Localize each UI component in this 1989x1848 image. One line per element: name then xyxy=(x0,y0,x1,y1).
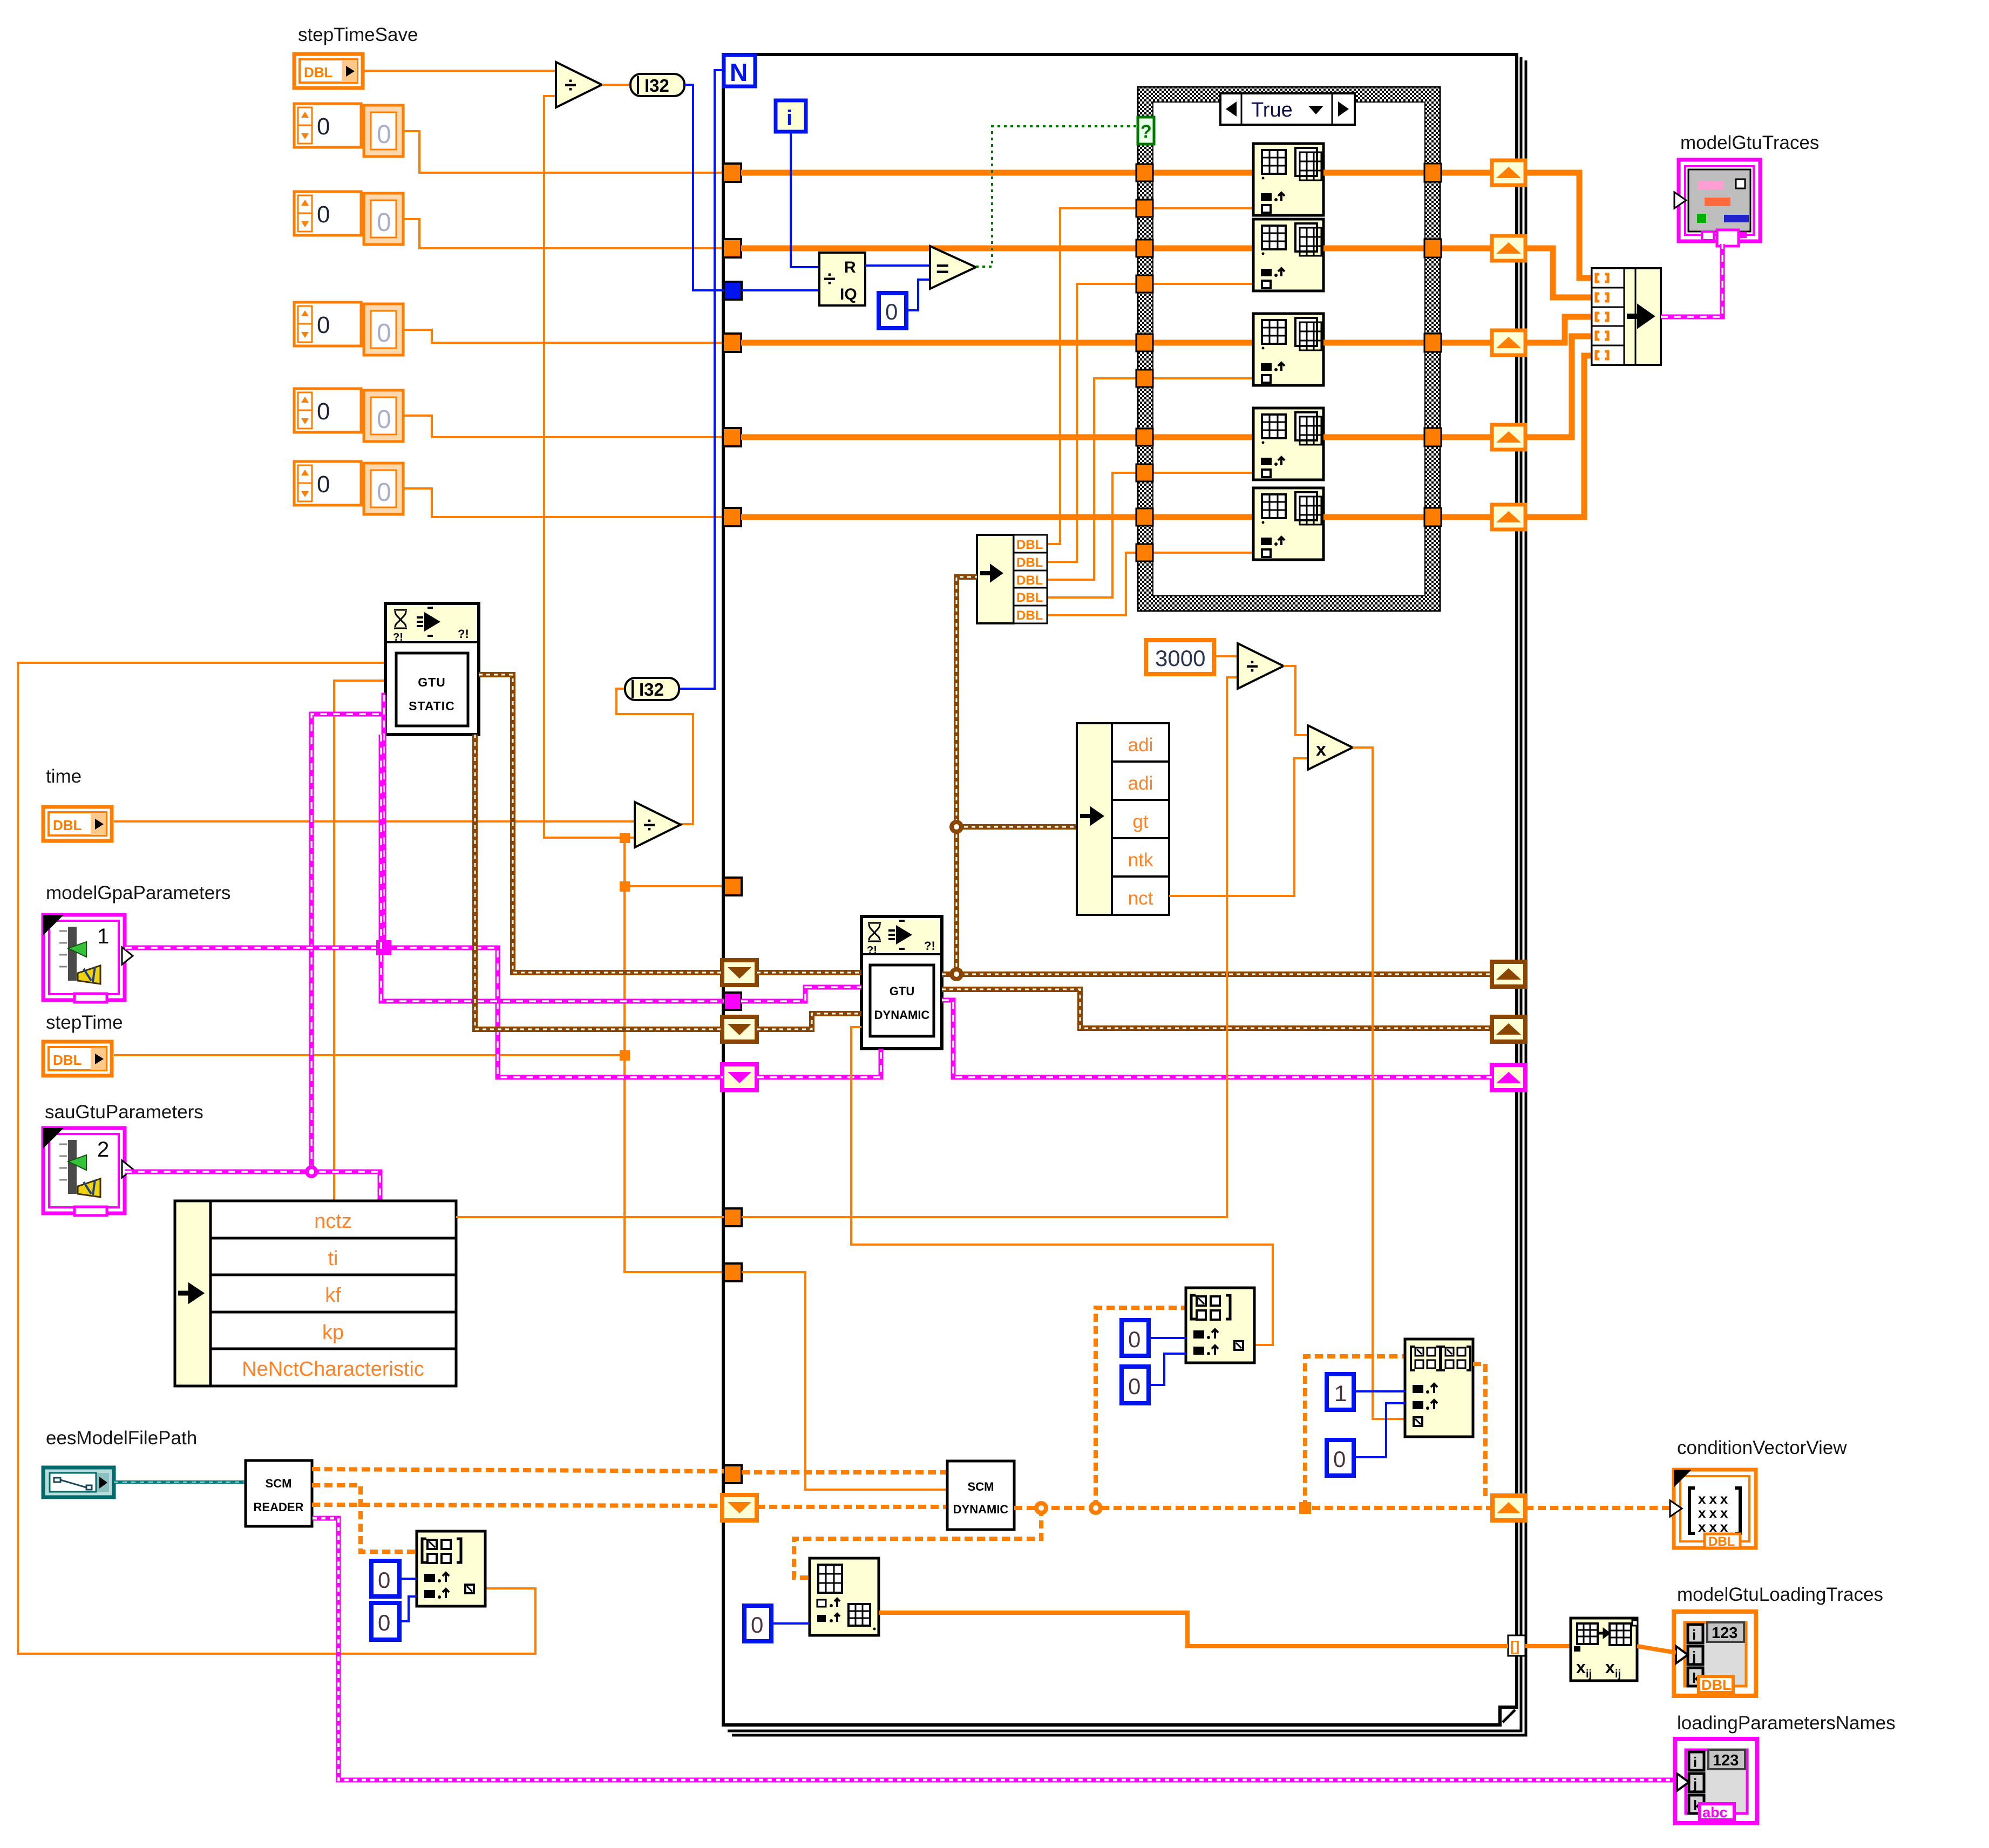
numeric control 2 (0) xyxy=(294,192,403,244)
wire GTU STATIC input 2 riser xyxy=(334,681,385,1201)
wire stepTime control to trunk xyxy=(114,1054,624,1056)
svg-text:i: i xyxy=(786,106,792,130)
constant 0 (blue) for equals xyxy=(879,293,906,328)
svg-text:÷: ÷ xyxy=(824,267,836,291)
svg-text:modelGpaParameters: modelGpaParameters xyxy=(46,882,230,903)
case tunnel right 2 xyxy=(1424,239,1441,257)
wire numeric control 3 to loop tunnel xyxy=(403,330,724,343)
loop tunnel input 3 xyxy=(723,334,741,352)
svg-text:0: 0 xyxy=(1128,1374,1141,1399)
wire equals to case selector (boolean) xyxy=(976,126,1138,267)
wire 2D branch down to matrix node xyxy=(794,1508,1041,1578)
wire nctz tunnel riser to divide3 xyxy=(742,677,1238,1217)
svg-text:DBL: DBL xyxy=(1701,1677,1732,1693)
loop tunnel 2D array square xyxy=(724,1465,742,1483)
svg-text:DBL: DBL xyxy=(1016,573,1043,588)
wire array row 2 into case xyxy=(741,246,1253,252)
wire matrix 2 output xyxy=(1323,246,1492,252)
sub-VI SCM DYNAMIC xyxy=(947,1461,1014,1530)
wire index element to GTU DYNAMIC initial input xyxy=(851,1027,1273,1345)
control modelGpaParameters (cluster array) xyxy=(43,915,133,1002)
svg-text:kf: kf xyxy=(325,1284,341,1307)
wire matrix 1 output xyxy=(1323,170,1492,176)
wire stepTime vertical trunk xyxy=(624,838,724,1272)
svg-text:1: 1 xyxy=(97,925,109,948)
svg-text:sauGtuParameters: sauGtuParameters xyxy=(45,1102,203,1123)
wire indexing tunnel 5 to concatenate xyxy=(1525,356,1592,517)
numeric control 3 (0) xyxy=(294,302,403,355)
svg-text:DBL: DBL xyxy=(1016,608,1043,623)
replace matrix element node xyxy=(1405,1339,1473,1437)
loop tunnel nctz xyxy=(724,1208,742,1226)
wire 2D triangle tunnel to SCM DYNAMIC in3 xyxy=(757,1505,947,1509)
svg-text:DBL: DBL xyxy=(1016,538,1043,552)
loop tunnel stepTime lower xyxy=(724,1263,742,1281)
svg-text:I32: I32 xyxy=(639,680,664,699)
svg-text:2: 2 xyxy=(97,1138,109,1161)
svg-text:True: True xyxy=(1251,99,1293,121)
indicator loadingParametersNames xyxy=(1675,1739,1757,1823)
wire sauGtuParameters to GTU STATIC xyxy=(125,1172,380,1202)
get submatrix node xyxy=(810,1558,879,1635)
svg-text:modelGtuTraces: modelGtuTraces xyxy=(1680,132,1819,153)
loop indexing tunnel out 4 xyxy=(1492,425,1525,450)
case tunnel left thin 4 xyxy=(1136,464,1153,481)
wire divide1 to I32 xyxy=(602,84,629,86)
svg-text:0: 0 xyxy=(1333,1446,1346,1472)
svg-text:0: 0 xyxy=(1128,1327,1141,1352)
svg-text:GTU: GTU xyxy=(418,675,446,689)
svg-text:IQ: IQ xyxy=(840,286,857,303)
wire GTU STATIC cluster out 2 xyxy=(475,735,722,1029)
wire array row 4 into case xyxy=(741,434,1253,440)
svg-text:x: x xyxy=(1316,739,1326,760)
wire matrix 5 output xyxy=(1323,514,1492,520)
svg-text:nctz: nctz xyxy=(314,1210,352,1233)
wire SCM READER out 2 to index array xyxy=(312,1485,417,1552)
svg-text:123: 123 xyxy=(1712,1625,1737,1642)
svg-text:stepTimeSave: stepTimeSave xyxy=(298,24,418,45)
equals node xyxy=(930,246,976,289)
wire scalar row 4 from bundle to case xyxy=(1046,473,1253,597)
case tunnel right 3 xyxy=(1424,334,1441,352)
index array node (model row) xyxy=(417,1531,485,1606)
wire indexing tunnel 3 to concatenate xyxy=(1525,317,1592,343)
loop indexing tunnel out 1 xyxy=(1492,160,1525,185)
svg-text:?!: ?! xyxy=(458,627,469,641)
wire multiply to matrix set node xyxy=(1353,748,1405,1419)
sub-VI SCM READER xyxy=(246,1460,312,1526)
loop tunnel brown 2 xyxy=(722,1017,757,1042)
svg-text:eesModelFilePath: eesModelFilePath xyxy=(46,1428,197,1449)
case tunnel left thin 5 xyxy=(1136,544,1153,561)
loop tunnel input 1 xyxy=(723,164,741,182)
build-matrix node 1 in case xyxy=(1253,144,1323,215)
wire 2D out of loop to conditionVectorView xyxy=(1525,1506,1674,1510)
build-matrix node 5 in case xyxy=(1253,488,1323,560)
svg-text:0: 0 xyxy=(885,299,898,324)
loop tunnel input 2 xyxy=(723,239,741,257)
case tunnel left thick 4 xyxy=(1136,429,1153,446)
svg-text:DBL: DBL xyxy=(1708,1534,1735,1549)
case tunnel left thick 3 xyxy=(1136,334,1153,351)
loop tunnel orange square (time) xyxy=(724,878,742,895)
junction SCM out 2 xyxy=(1089,1501,1103,1515)
wire stepTime tunnel to SCM DYNAMIC xyxy=(742,1272,947,1490)
case tunnel right 1 xyxy=(1424,164,1441,182)
svg-text:÷: ÷ xyxy=(643,813,655,837)
svg-text:conditionVectorView: conditionVectorView xyxy=(1677,1437,1847,1458)
constant 0 for index row xyxy=(371,1561,399,1596)
wire converter to modelGtuLoadingTraces xyxy=(1637,1646,1676,1653)
numeric control 1 (0) xyxy=(294,104,403,157)
junction brown 1 xyxy=(949,967,963,981)
loop tunnel out loading [] xyxy=(1508,1635,1525,1656)
loop tunnel brown 1 (GTU STATIC cluster) xyxy=(722,960,757,985)
svg-text:ij: ij xyxy=(1615,1668,1621,1680)
wire divide2 to I32 2 xyxy=(616,689,693,824)
constant 1 (blue) xyxy=(1327,1374,1354,1410)
wire matrix 3 output xyxy=(1323,340,1492,346)
case selector label True xyxy=(1220,93,1355,125)
svg-text:x: x xyxy=(1605,1657,1615,1677)
wire I32 to loop tunnel (blue) xyxy=(684,85,724,290)
wire modelGpa branch to GTU STATIC xyxy=(384,695,385,948)
wire nct to multiply xyxy=(1169,758,1308,896)
sub-VI GTU DYNAMIC xyxy=(861,916,942,1049)
wire SCM READER 2D out 2 xyxy=(312,1505,722,1506)
svg-text:READER: READER xyxy=(254,1500,304,1514)
svg-text:loadingParametersNames: loadingParametersNames xyxy=(1677,1713,1896,1734)
wire nctz output to loop tunnel xyxy=(456,1216,724,1218)
wire 0 b to index array xyxy=(399,1596,417,1621)
wire eesModelFilePath to SCM READER xyxy=(114,1480,246,1484)
svg-text:123: 123 xyxy=(1713,1752,1739,1769)
svg-text:=: = xyxy=(936,256,949,281)
case tunnel right 5 xyxy=(1424,508,1441,526)
svg-text:stepTime: stepTime xyxy=(46,1012,123,1033)
svg-text:abc: abc xyxy=(1702,1804,1728,1820)
svg-text:÷: ÷ xyxy=(565,73,576,97)
svg-text:N: N xyxy=(730,58,748,86)
wire scalar row 5 from bundle to case xyxy=(1046,553,1253,615)
case tunnel left thin 3 xyxy=(1136,370,1153,387)
wire 2D tunnel to SCM DYNAMIC in1 xyxy=(742,1470,947,1475)
junction SCM out 3 xyxy=(1299,1502,1311,1514)
junction brown 2 xyxy=(949,820,963,834)
convert-to-I32 node 1 xyxy=(630,74,684,96)
for-loop count terminal N xyxy=(724,55,755,86)
svg-text:1: 1 xyxy=(1334,1381,1347,1406)
wire array row 3 into case xyxy=(741,340,1253,346)
svg-text:0: 0 xyxy=(751,1612,763,1638)
wire 2D branch up to index element node xyxy=(1096,1308,1186,1508)
for-loop page curl xyxy=(1503,1710,1515,1722)
wire divide3 to multiply xyxy=(1284,666,1308,735)
wire modelGpaParameters trunk xyxy=(125,948,723,1077)
wire indexing tunnel 2 to concatenate xyxy=(1525,248,1592,297)
svg-text:NeNctCharacteristic: NeNctCharacteristic xyxy=(242,1358,424,1381)
wire numeric control 4 to loop tunnel xyxy=(403,416,724,437)
wire GTU DYNAMIC cluster out 2 xyxy=(942,989,1492,1028)
svg-text:SCM: SCM xyxy=(266,1477,292,1490)
svg-text:3000: 3000 xyxy=(1155,646,1205,671)
junction SCM out 1 xyxy=(1034,1501,1048,1515)
constant 3000 xyxy=(1146,640,1214,674)
case tunnel left thick 1 xyxy=(1136,164,1153,181)
wire array row 5 into case xyxy=(741,514,1253,520)
wire 3000 to divide3 xyxy=(1214,655,1238,657)
numeric control 5 (0) xyxy=(294,461,403,514)
svg-text:[]: [] xyxy=(1510,1638,1519,1654)
wire model element feedback to GTU STATIC input 1 xyxy=(18,663,535,1654)
wire matrix 4 output xyxy=(1323,434,1492,440)
indicator modelGtuTraces (waveform graph) xyxy=(1674,160,1760,246)
quotient-remainder node xyxy=(819,253,865,305)
loop tunnel magenta triangle xyxy=(722,1064,757,1090)
control eesModelFilePath (path) xyxy=(43,1467,114,1497)
case structure border xyxy=(1138,87,1440,611)
svg-text:0: 0 xyxy=(378,1567,390,1593)
junction dots on stepTime trunk xyxy=(620,833,630,1061)
divide node (stepTimeSave/stepTime) xyxy=(556,62,602,107)
loop tunnel 2D array triangle xyxy=(722,1495,757,1520)
wire GTU STATIC magenta output into loop xyxy=(381,735,724,1001)
build-matrix node 4 in case xyxy=(1253,408,1323,480)
indicator modelGtuLoadingTraces xyxy=(1674,1612,1756,1696)
for-loop iteration terminal i xyxy=(776,100,806,132)
wire array row 1 into case xyxy=(741,170,1253,176)
wire brown tunnel1 to GTU DYNAMIC xyxy=(757,970,861,975)
svg-text:nct: nct xyxy=(1128,888,1153,909)
wire numeric control 5 to loop tunnel xyxy=(403,488,724,517)
svg-text:GTU: GTU xyxy=(890,984,914,998)
numeric control 4 (0) xyxy=(294,389,403,441)
control time (DBL) xyxy=(43,807,112,841)
convert matrix to array node xij xyxy=(1571,1618,1638,1681)
wire 1 to matrix set xyxy=(1354,1390,1405,1392)
svg-text:j: j xyxy=(1692,1648,1696,1664)
svg-text:x: x xyxy=(1576,1657,1586,1677)
wire stepTime riser to divide1 lower input xyxy=(544,96,635,838)
wire SCM READER names out (magenta chain) xyxy=(313,1518,1677,1780)
wire 0 b to index element xyxy=(1149,1354,1186,1385)
loop indexing tunnel out 2 xyxy=(1492,236,1525,261)
concatenate arrays node xyxy=(1592,268,1661,365)
loop tunnel out brown 2 xyxy=(1492,1017,1525,1042)
sub-VI GTU STATIC xyxy=(385,603,479,735)
wire sauGtu riser to GTU STATIC input xyxy=(311,714,385,1172)
wire SCM DYNAMIC 2D output trunk xyxy=(1014,1506,1492,1510)
wire GTU DYNAMIC magenta output to out tunnel xyxy=(942,1000,1492,1077)
wire matrix set output to tunnel xyxy=(1473,1364,1485,1500)
wire stepTimeSave to divide1 xyxy=(363,70,556,72)
convert-to-I32 node 2 xyxy=(625,678,679,700)
svg-text:R: R xyxy=(844,259,856,276)
wire brown tunnel2 to GTU DYNAMIC xyxy=(757,1014,861,1029)
wire indexing tunnel 1 to concatenate xyxy=(1525,173,1592,278)
svg-text:I32: I32 xyxy=(644,76,669,96)
constant 0 (blue) for matrix set xyxy=(1327,1440,1354,1476)
wire remainder to equals xyxy=(865,264,930,267)
svg-text:DYNAMIC: DYNAMIC xyxy=(874,1008,930,1022)
wire i terminal to quotient-remainder xyxy=(791,132,819,267)
svg-text:SCM: SCM xyxy=(968,1480,994,1493)
loop tunnel magenta square xyxy=(724,993,741,1010)
constant 0 for index element xyxy=(1122,1320,1149,1356)
wire 2D branch to matrix set node xyxy=(1305,1356,1405,1508)
wire I32 tunnel to quotient-remainder xyxy=(742,289,819,291)
wire concatenate to modelGtuTraces xyxy=(1661,244,1722,317)
loop tunnel out 2D array xyxy=(1492,1496,1525,1520)
loop indexing tunnel out 5 xyxy=(1492,505,1525,529)
control stepTime (DBL) xyxy=(43,1042,112,1076)
svg-text:0: 0 xyxy=(378,1610,390,1635)
control stepTimeSave (DBL) xyxy=(294,54,363,88)
case tunnel left thin 1 xyxy=(1136,200,1153,217)
svg-text:ti: ti xyxy=(328,1247,338,1270)
svg-text:DBL: DBL xyxy=(1016,590,1043,605)
unbundle by name adi/adi/gt/ntk/nct xyxy=(1077,723,1169,915)
indicator conditionVectorView xyxy=(1670,1470,1756,1549)
wire branch to GTU DYNAMIC time tunnel xyxy=(624,885,724,887)
wire 0 to index element xyxy=(1149,1337,1186,1339)
wire time to divide2 xyxy=(114,820,635,823)
divide node 2 (time/stepTime) xyxy=(635,802,681,847)
loop tunnel input 4 xyxy=(723,428,741,446)
wire 0 to matrix set xyxy=(1354,1403,1405,1457)
wire get submatrix to out tunnel xyxy=(879,1613,1508,1646)
junction modelGpa xyxy=(376,940,391,955)
wire 0 to index array xyxy=(399,1578,417,1580)
svg-text:DYNAMIC: DYNAMIC xyxy=(953,1503,1009,1516)
build-matrix node 3 in case xyxy=(1253,314,1323,385)
case tunnel left thick 5 xyxy=(1136,508,1153,526)
svg-text:modelGtuLoadingTraces: modelGtuLoadingTraces xyxy=(1677,1584,1883,1605)
wire GTU DYNAMIC cluster out to tunnel xyxy=(942,971,1492,977)
case tunnel left thick 2 xyxy=(1136,240,1153,257)
constant 0 for get submatrix xyxy=(744,1606,771,1641)
loop tunnel I32 (blue) xyxy=(724,282,742,300)
wire 0 to equals xyxy=(906,280,930,310)
wire GTU DYNAMIC cluster riser to unbundles xyxy=(956,577,977,974)
wire scalar row 3 from bundle to case xyxy=(1046,378,1253,580)
constant 0 b for index array xyxy=(371,1603,399,1640)
unbundle by name nctz/ti/kf/kp/NeNctCharacteristic xyxy=(175,1201,456,1386)
wire magenta triangle tunnel to GTU DYNAMIC bottom xyxy=(757,1049,881,1077)
svg-text:i: i xyxy=(1693,1754,1697,1770)
svg-text:DBL: DBL xyxy=(1016,555,1043,570)
wire scalar row 2 from bundle to case xyxy=(1046,284,1253,562)
divide node 3 xyxy=(1238,643,1284,689)
multiply node xyxy=(1308,725,1353,770)
svg-text:adi: adi xyxy=(1128,735,1153,756)
wire SCM READER 2D out 1 xyxy=(312,1469,724,1471)
svg-text:i: i xyxy=(1692,1627,1696,1643)
svg-text:kp: kp xyxy=(322,1321,344,1344)
wire N count (blue) xyxy=(680,70,724,689)
svg-text:ntk: ntk xyxy=(1128,850,1153,871)
loop indexing tunnel out 3 xyxy=(1492,330,1525,355)
junction sauGtu xyxy=(305,1165,318,1178)
wire 0 to get submatrix xyxy=(771,1622,810,1625)
svg-text:time: time xyxy=(46,766,82,787)
svg-text:gt: gt xyxy=(1132,811,1148,832)
wire scalar row 1 from bundle to case xyxy=(1046,208,1253,544)
for-loop frame xyxy=(723,55,1517,1725)
case tunnel right 4 xyxy=(1424,428,1441,446)
wire indexing tunnel 4 to concatenate xyxy=(1525,336,1592,437)
control sauGtuParameters (cluster array) xyxy=(43,1128,133,1215)
svg-text:ij: ij xyxy=(1586,1668,1592,1680)
case tunnel left thin 2 xyxy=(1136,275,1153,293)
wire loading out tunnel to converter xyxy=(1525,1644,1571,1648)
for-loop frame stacked shadow lines xyxy=(728,57,1521,1731)
case selector tunnel ? xyxy=(1138,117,1154,144)
svg-text:j: j xyxy=(1693,1776,1697,1792)
constant 0 b for index element xyxy=(1122,1367,1149,1403)
wire numeric control 1 to loop tunnel xyxy=(403,131,724,173)
build-matrix node 2 in case xyxy=(1253,219,1323,291)
svg-text:?!: ?! xyxy=(924,939,935,953)
svg-text:STATIC: STATIC xyxy=(409,699,455,713)
loop tunnel out brown 1 xyxy=(1492,962,1525,987)
loop tunnel out magenta xyxy=(1492,1065,1525,1090)
unbundle cluster to 5 DBL node xyxy=(977,535,1047,623)
loop tunnel input 5 xyxy=(723,508,741,526)
svg-text:?: ? xyxy=(1141,121,1152,142)
wire brown branch to adi unbundle xyxy=(956,824,1077,830)
wire numeric control 2 to loop tunnel xyxy=(403,219,724,248)
index array element node xyxy=(1186,1288,1254,1363)
svg-text:adi: adi xyxy=(1128,773,1153,794)
wire magenta tunnel to GTU DYNAMIC xyxy=(741,987,861,1001)
svg-text:÷: ÷ xyxy=(1246,655,1258,678)
wire GTU STATIC cluster out 1 xyxy=(479,675,722,973)
